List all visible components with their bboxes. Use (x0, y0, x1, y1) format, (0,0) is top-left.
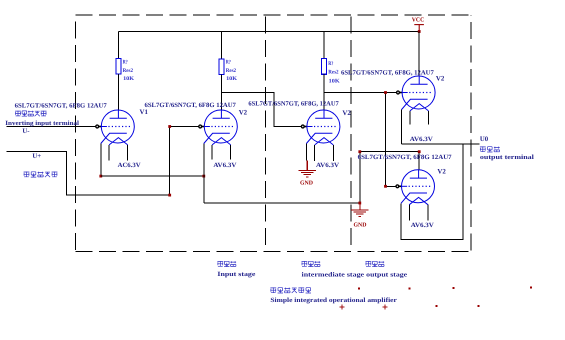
V1 heater pins (108, 145, 110, 161)
label chinese output terminal (480, 146, 500, 152)
triode V2 (second stage) (204, 110, 238, 145)
wire R2 top (220, 32, 222, 59)
stray dot 4 (530, 287, 532, 289)
svg-text:U0: U0 (480, 136, 489, 143)
junction VCC-rail (418, 30, 421, 33)
svg-text:10K: 10K (226, 76, 238, 82)
junction U+ riser bottom (168, 194, 171, 197)
node U- pin terminal (96, 125, 99, 128)
wire V3 cathode lead (305, 144, 307, 161)
label chinese non-inverting input (24, 172, 58, 178)
stray cross 2 (383, 305, 388, 310)
triode V1 (101, 110, 135, 145)
svg-text:Res2: Res2 (123, 68, 134, 74)
wire inverting input U- (6, 126, 96, 128)
triode V5 (lower output) (401, 170, 435, 205)
resistor R? 10K (second stage) (219, 59, 224, 75)
stray dot 2 (409, 288, 411, 290)
V5 heater pins (408, 205, 410, 221)
svg-text:R?: R? (226, 60, 231, 66)
svg-text:Inverting input terminal: Inverting input terminal (5, 120, 79, 127)
wire VCC to V4 plate (418, 32, 420, 76)
label chinese intermediate stage (302, 261, 321, 267)
junction U+ riser top (168, 125, 171, 128)
svg-text:Res2: Res2 (328, 70, 339, 76)
svg-text:VCC: VCC (412, 16, 424, 23)
stray dot 1 (358, 288, 360, 290)
junction V2 cathode (202, 175, 205, 178)
V4 heater pins (409, 111, 411, 125)
ground GND (tail) (359, 203, 361, 210)
label chinese simple opamp (270, 287, 311, 293)
svg-text:AV6.3V: AV6.3V (411, 222, 434, 229)
wire V2 cathode lead (203, 144, 205, 204)
svg-text:6SL7GT/6SN7GT, 6F8G 12AU7: 6SL7GT/6SN7GT, 6F8G 12AU7 (145, 102, 237, 109)
junction at V5 grid wire (384, 185, 387, 188)
power VCC symbol (414, 25, 424, 32)
junction W left corner (358, 150, 361, 153)
node V5 grid pin terminal (396, 185, 399, 188)
junction tail-gnd corner (358, 202, 361, 205)
svg-text:6SL7GT/6SN7GT, 6F8G, 12AU7: 6SL7GT/6SN7GT, 6F8G, 12AU7 (248, 101, 339, 108)
wire V3 plate to V4 grid (324, 92, 397, 94)
triode V4 (upper output) (402, 76, 436, 111)
dashed amplifier boundary box (75, 15, 471, 252)
wire V4 cathode lead (401, 110, 403, 144)
svg-text:GND: GND (354, 223, 368, 229)
ground GND (V3 cathode) (306, 160, 308, 170)
wire cathode tail bus (204, 202, 360, 204)
svg-text:AV6.3V: AV6.3V (316, 162, 339, 169)
stray dot 3 (453, 287, 455, 289)
svg-text:V2: V2 (436, 76, 445, 83)
triode V3 (third stage) (306, 110, 340, 145)
wire V1 cathode lead (100, 144, 102, 177)
svg-text:R?: R? (123, 60, 128, 66)
svg-text:output terminal: output terminal (480, 154, 534, 161)
node V3 grid pin terminal (301, 125, 304, 128)
node V2 grid pin terminal (199, 125, 202, 128)
V3 heater pins (314, 145, 316, 161)
wire R1 top (117, 32, 119, 59)
junction W right corner (418, 150, 421, 153)
resistor R? 10K (first stage) (116, 58, 121, 74)
label chinese inverting input (15, 111, 46, 117)
label chinese input stage (217, 261, 236, 267)
svg-text:10K: 10K (329, 79, 341, 85)
wire R3 top (323, 32, 325, 59)
svg-text:AC6.3V: AC6.3V (118, 162, 141, 169)
wire output (402, 143, 480, 145)
V2 heater pins (211, 145, 213, 160)
node V4 grid pin terminal (397, 91, 400, 94)
svg-text:V1: V1 (140, 109, 149, 116)
svg-text:GND: GND (300, 180, 314, 186)
stray dot 5 (436, 305, 438, 307)
svg-text:Simple integrated operational: Simple integrated operational amplifier (270, 297, 397, 304)
junction V1 cathode (99, 175, 102, 178)
wire R1 to V1 plate (117, 74, 119, 110)
wire V4 grid to V5 grid (385, 93, 387, 187)
wire R3 to V3 plate (323, 74, 325, 110)
wire output to V5 cathode loop (401, 144, 463, 240)
svg-text:output stage: output stage (366, 272, 407, 279)
svg-text:Input stage: Input stage (217, 271, 255, 278)
wire cathode bus V1-V2 (101, 175, 204, 177)
dashed stage divider 2 (350, 16, 352, 251)
wire R2 to V2 plate (220, 75, 222, 111)
junction at V4 grid wire (384, 91, 387, 94)
svg-text:Res2: Res2 (226, 68, 237, 74)
stray dot 6 (478, 305, 480, 307)
wire VCC power rail (118, 31, 419, 33)
svg-text:AV6.3V: AV6.3V (213, 162, 236, 169)
svg-text:6SL7GT/6SN7GT, 6F8G 12AU7: 6SL7GT/6SN7GT, 6F8G 12AU7 (15, 103, 108, 110)
wire V5 plate net (360, 151, 419, 153)
svg-text:V2: V2 (342, 110, 351, 117)
svg-text:10K: 10K (123, 76, 135, 82)
svg-text:6SL7GT/6SN7GT, 6F8G, 12AU7: 6SL7GT/6SN7GT, 6F8G, 12AU7 (341, 70, 435, 77)
wire V2 plate to V3 grid (221, 93, 302, 127)
label chinese output stage (366, 261, 385, 267)
svg-text:V2: V2 (239, 109, 248, 116)
svg-text:R?: R? (328, 61, 333, 67)
svg-text:V2: V2 (437, 169, 446, 176)
svg-text:AV6.3V: AV6.3V (410, 136, 433, 143)
stray cross 1 (340, 305, 345, 310)
svg-text:U-: U- (22, 128, 30, 135)
resistor R? 10K (third stage) (322, 59, 327, 75)
wire non-inverting input U+ (6, 127, 199, 196)
svg-text:intermediate stage: intermediate stage (302, 272, 365, 279)
svg-text:6SL7GT/6SN7GT, 6F8G 12AU7: 6SL7GT/6SN7GT, 6F8G 12AU7 (358, 154, 453, 161)
dashed stage divider 1 (264, 16, 266, 251)
svg-text:U+: U+ (32, 153, 41, 160)
